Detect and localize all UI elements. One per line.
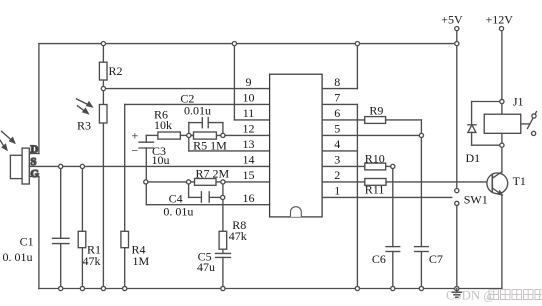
svg-text:R2: R2 bbox=[109, 64, 123, 78]
svg-text:CSDN @: CSDN @ bbox=[446, 289, 495, 303]
capacitor C1 plates bbox=[53, 238, 70, 243]
node rail-C7 bbox=[419, 286, 423, 290]
svg-text:12: 12 bbox=[243, 122, 255, 136]
wire S row (mic source to IC pin 14) bbox=[29, 165, 269, 167]
wire bottom ground rail bbox=[39, 288, 502, 290]
resistor R5 row wire bbox=[189, 134, 223, 136]
relay contact bbox=[521, 112, 537, 136]
wire T1 emitter to ground rail bbox=[501, 195, 503, 289]
resistor R4 bbox=[121, 231, 129, 247]
wire pin11 row bbox=[234, 119, 269, 121]
svg-text:R9: R9 bbox=[369, 104, 383, 118]
svg-text:1M: 1M bbox=[133, 254, 150, 268]
svg-text:14: 14 bbox=[243, 153, 255, 167]
wire SW1 to ground rail bbox=[456, 206, 458, 289]
wire pin3 row to R10 bbox=[322, 165, 365, 167]
wire pin10 row (IC pin 10 to R4 column) bbox=[125, 103, 270, 105]
resistor R6 bbox=[158, 132, 181, 139]
svg-text:+: + bbox=[132, 129, 139, 143]
sound arrows at microphone bbox=[0, 131, 15, 150]
svg-text:0. 01u: 0. 01u bbox=[3, 250, 33, 264]
capacitor C7 lead to rail bbox=[420, 252, 422, 289]
svg-text:1: 1 bbox=[334, 184, 340, 198]
wire pin15 row (C3 column to IC pin 15) bbox=[146, 181, 270, 183]
svg-text:2: 2 bbox=[334, 168, 340, 182]
node rail-pin7bus bbox=[355, 286, 359, 290]
ground symbol bbox=[452, 289, 461, 298]
svg-text:6: 6 bbox=[334, 106, 340, 120]
resistor R11 bbox=[365, 179, 386, 186]
resistor R5 bbox=[194, 132, 217, 139]
node R10-C6 bbox=[391, 164, 395, 168]
svg-text:R11: R11 bbox=[365, 183, 385, 197]
svg-text:+12V: +12V bbox=[486, 13, 514, 27]
svg-text:11: 11 bbox=[243, 106, 255, 120]
svg-text:47k: 47k bbox=[83, 254, 101, 268]
wire R6 to R5 node bbox=[180, 134, 193, 136]
IC U1 notch bbox=[291, 207, 302, 217]
capacitor C3 plates (electrolytic 10u) bbox=[139, 142, 154, 148]
resistor R7 bbox=[195, 179, 217, 186]
node G label bbox=[30, 168, 39, 180]
diode D1 bbox=[468, 125, 476, 133]
wire pin13 row (R5 left node down and to IC) bbox=[189, 135, 270, 151]
svg-text:J1: J1 bbox=[513, 94, 524, 108]
resistor R4 column bbox=[124, 104, 126, 288]
resistor R8 column bbox=[222, 197, 224, 253]
node R9-pin5 bbox=[419, 133, 423, 137]
power terminal +12V bbox=[499, 27, 503, 102]
wire +12V into relay coil bbox=[501, 102, 503, 115]
svg-text:R7 2M: R7 2M bbox=[196, 166, 230, 180]
ground symbol overlay bbox=[452, 289, 461, 298]
capacitor C6 plates bbox=[386, 247, 400, 252]
svg-text:0.01u: 0.01u bbox=[184, 104, 211, 118]
svg-text:15: 15 bbox=[243, 168, 255, 182]
node rail-R2 bbox=[101, 42, 105, 46]
svg-text:13: 13 bbox=[243, 137, 255, 151]
node rail-R1 bbox=[80, 286, 84, 290]
resistor R2 column / R3 column bbox=[102, 44, 104, 289]
wire pin8 row to +5V bus bbox=[322, 44, 357, 89]
node rail-+5V bbox=[455, 42, 459, 46]
node R2-R3 pin9 bbox=[101, 87, 105, 91]
node rail-pin8 bbox=[355, 42, 359, 46]
power terminal +5V bbox=[455, 27, 459, 44]
svg-text:0. 01u: 0. 01u bbox=[163, 205, 193, 219]
svg-text:47k: 47k bbox=[229, 229, 247, 243]
wire R11 to T1 base bbox=[386, 181, 492, 183]
svg-text:5: 5 bbox=[334, 122, 340, 136]
svg-text:+5V: +5V bbox=[441, 13, 463, 27]
svg-text:9: 9 bbox=[246, 75, 252, 89]
wire pin9 row (R2/R3 node to IC pin 9) bbox=[103, 88, 269, 90]
node rail-SW1 bbox=[455, 286, 459, 290]
svg-text:T1: T1 bbox=[513, 174, 526, 188]
wire R9 to C7 column bbox=[386, 120, 422, 247]
svg-text:C7: C7 bbox=[429, 252, 443, 266]
capacitor C3 column with corner from R6 bbox=[146, 135, 158, 204]
resistor R3 (photoresistor body) bbox=[99, 105, 107, 124]
wire vdd bus x=234 (rail to pin 11) bbox=[233, 44, 235, 120]
switch SW1 terminals bbox=[455, 189, 459, 206]
node rail-bus bbox=[232, 42, 236, 46]
resistor R10 bbox=[365, 163, 386, 170]
wire pin5 row bbox=[322, 134, 421, 136]
svg-text:10: 10 bbox=[243, 91, 255, 105]
capacitor C1 column bbox=[60, 166, 62, 288]
wire pin4 row bbox=[322, 150, 357, 152]
node R5 right bbox=[221, 133, 225, 137]
wire pin2 row to R11 bbox=[322, 181, 365, 183]
svg-text:G: G bbox=[30, 168, 39, 180]
capacitor C6 lead to rail bbox=[392, 252, 394, 289]
node C3-pin15 bbox=[144, 180, 148, 184]
resistor R1 bbox=[78, 231, 86, 247]
resistor R8 bbox=[219, 231, 227, 249]
capacitor C4 leads and plates bbox=[189, 192, 223, 202]
watermark CSDN bbox=[446, 289, 542, 303]
capacitor C7 plates bbox=[415, 247, 429, 252]
wire pin7 row to ground bus bbox=[322, 104, 357, 288]
node rail-C6 bbox=[391, 286, 395, 290]
wire pin1 row to SW1 bbox=[322, 196, 452, 198]
svg-text:47u: 47u bbox=[197, 260, 215, 274]
IC U1 body bbox=[270, 74, 323, 217]
svg-text:R5 1M: R5 1M bbox=[193, 138, 227, 152]
node rail-C1 bbox=[59, 286, 63, 290]
resistor R1 column bbox=[81, 166, 83, 288]
svg-text:C6: C6 bbox=[372, 252, 386, 266]
capacitor C2 leads and plates bbox=[189, 118, 223, 128]
node C4-R8 bbox=[221, 195, 225, 199]
svg-text:D1: D1 bbox=[466, 151, 481, 165]
wire left border bottom (mic G to ground rail) bbox=[29, 177, 39, 289]
capacitor C5 lead to rail bbox=[222, 257, 224, 288]
resistor R9 bbox=[365, 117, 386, 124]
node rail-R3 bbox=[101, 286, 105, 290]
svg-text:R3: R3 bbox=[77, 119, 91, 133]
svg-text:C4: C4 bbox=[169, 191, 183, 205]
svg-text:SW1: SW1 bbox=[464, 192, 488, 206]
wire pin12 row (R5 right node to IC) bbox=[223, 134, 270, 136]
svg-text:C1: C1 bbox=[20, 235, 34, 249]
node R7 left bbox=[187, 180, 191, 184]
node D1 bottom bbox=[500, 143, 504, 147]
wire pin16 row (C3 column bottom to IC pin 16) bbox=[146, 204, 269, 206]
node rail-R4 bbox=[123, 286, 127, 290]
capacitor C2 branch verticals bbox=[189, 123, 223, 136]
svg-text:10k: 10k bbox=[154, 118, 172, 132]
svg-text:R10: R10 bbox=[365, 151, 385, 165]
node D label bbox=[30, 144, 38, 156]
node S-R1 bbox=[80, 164, 84, 168]
capacitor C4 branch verticals bbox=[189, 182, 223, 198]
capacitor C5 plates (electrolytic 47u) bbox=[216, 253, 231, 257]
svg-text:−: − bbox=[132, 144, 139, 158]
svg-text:16: 16 bbox=[243, 191, 255, 205]
diode D1 top wire bbox=[472, 102, 502, 125]
svg-text:7: 7 bbox=[334, 91, 340, 105]
svg-text:8: 8 bbox=[334, 75, 340, 89]
wire relay coil to collector node bbox=[501, 133, 503, 172]
diode D1 bottom wire bbox=[472, 132, 502, 145]
node S label bbox=[30, 156, 36, 168]
microphone MIC (electret with D S G leads) bbox=[10, 148, 29, 184]
transistor T1 bbox=[487, 172, 508, 195]
wire left border top (mic D to rail) bbox=[29, 44, 39, 154]
wire R10 to C6 column bbox=[386, 166, 393, 246]
node rail-C5 bbox=[221, 286, 225, 290]
relay J1 coil bbox=[484, 114, 521, 133]
node S-C1 bbox=[59, 164, 63, 168]
wire pin6 row to R9 bbox=[322, 119, 365, 121]
wire +5V column down to SW1 bbox=[456, 44, 458, 189]
wire top +5V rail bbox=[39, 43, 457, 45]
light arrows at R3 bbox=[77, 99, 93, 114]
svg-text:10u: 10u bbox=[152, 153, 170, 167]
svg-text:4: 4 bbox=[334, 137, 340, 151]
node R7 right bbox=[221, 180, 225, 184]
node R5 left bbox=[187, 133, 191, 137]
resistor R2 bbox=[99, 62, 107, 80]
node D1 top bbox=[500, 99, 504, 103]
svg-text:D: D bbox=[30, 144, 38, 156]
svg-text:3: 3 bbox=[334, 153, 340, 167]
